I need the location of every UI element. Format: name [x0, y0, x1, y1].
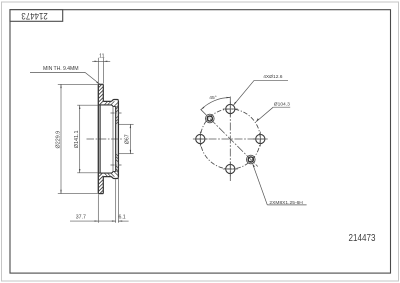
svg-text:45°: 45° [209, 95, 216, 101]
diagonal centerline through threaded holes [201, 109, 258, 166]
dimension D229.9 [58, 84, 98, 193]
ring outer edge top [98, 83, 103, 85]
braking ring right face (bottom) [102, 177, 104, 194]
hatch ring bottom [98, 173, 103, 193]
hat top cut outline with flange lip [103, 100, 118, 102]
flange right face (mounting face) [117, 101, 119, 177]
axis centerline [87, 138, 124, 140]
threaded hole lower-right M8 [247, 155, 256, 164]
braking ring right face (top) [102, 84, 104, 101]
vertical centerline [229, 97, 231, 182]
dimension D67 [119, 124, 134, 153]
bolt hole centerline top [111, 112, 122, 114]
bolt hole centerline bottom [111, 164, 122, 166]
svg-text:37.7: 37.7 [76, 215, 86, 221]
inner vertical line [99, 105, 101, 173]
svg-text:214473: 214473 [21, 11, 48, 22]
braking ring left face [97, 84, 99, 193]
hatch hat arm and lip bottom [104, 171, 118, 177]
dimension 37.7 and 6.1 [70, 178, 129, 223]
svg-text:Ø67: Ø67 [125, 134, 131, 144]
svg-text:Ø141.1: Ø141.1 [74, 131, 80, 149]
dimension thickness 11 [92, 58, 110, 84]
ring outer edge bottom [98, 193, 103, 195]
bolt hole bottom [226, 164, 235, 173]
hatch flange above bore [116, 107, 119, 125]
bolt hole top [226, 104, 235, 113]
svg-text:214473: 214473 [349, 232, 376, 243]
hat bottom cut outline with flange lip (mirror) [103, 177, 118, 179]
svg-text:Ø104.3: Ø104.3 [274, 101, 290, 107]
hatch hat arm and lip top [104, 101, 118, 107]
hat inner silhouette top [98, 105, 115, 107]
hat inner silhouette bottom [98, 172, 115, 174]
45 degree angle arc with arrows [201, 97, 230, 110]
svg-text:MIN TH. 9.4MM: MIN TH. 9.4MM [43, 66, 78, 72]
lip silhouette vertical [112, 107, 114, 172]
horizontal centerline [196, 138, 266, 140]
title box part number 214473 (rotated 180) [21, 11, 48, 22]
bolt hole right [256, 134, 265, 143]
svg-text:11: 11 [99, 54, 104, 60]
bolt circle D104.3 [200, 109, 260, 169]
threaded hole upper-left M8 [206, 114, 215, 123]
flange left face [115, 107, 117, 172]
hatch flange below bore [116, 154, 119, 172]
bolt hole center ticks [193, 102, 268, 177]
hatch ring top [98, 85, 103, 105]
svg-text:6.1: 6.1 [118, 215, 125, 221]
svg-text:Ø229.9: Ø229.9 [55, 131, 61, 149]
svg-text:4XØ12.6: 4XØ12.6 [263, 74, 283, 80]
dimension D141.1 [77, 105, 98, 173]
bolt hole left [196, 134, 205, 143]
title box top-left [10, 10, 63, 22]
